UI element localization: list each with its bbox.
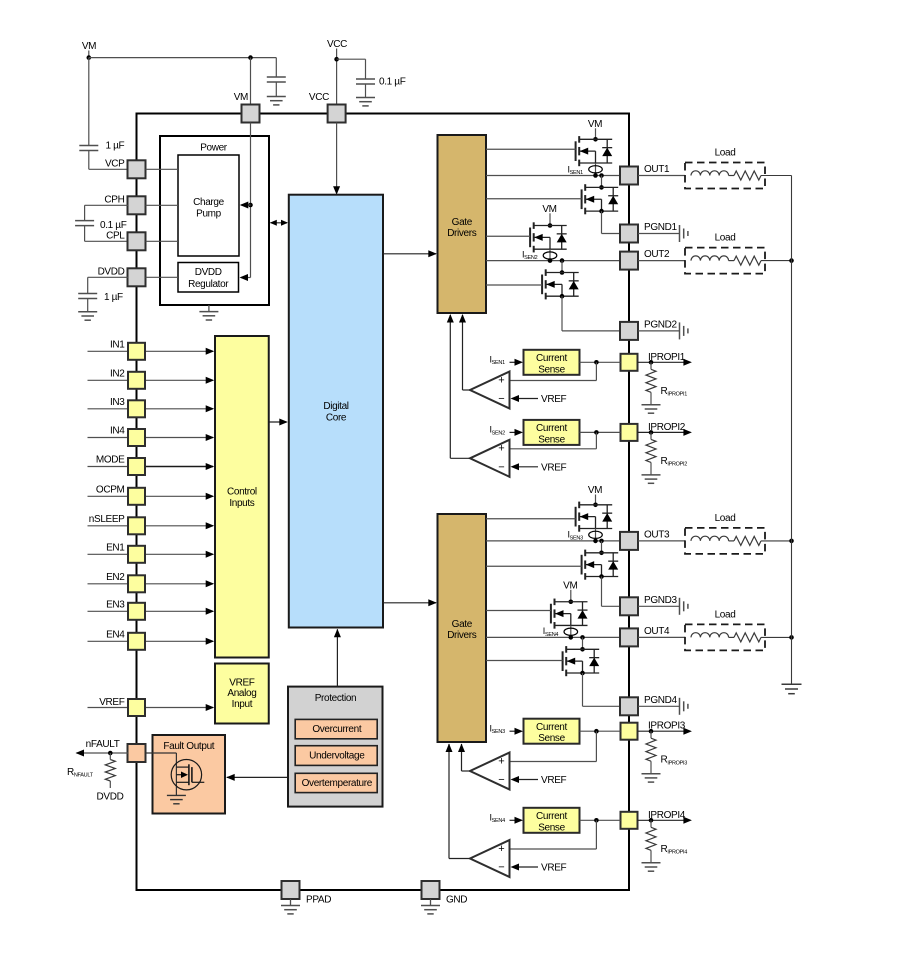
svg-text:EN1: EN1 [106,542,125,553]
svg-text:CPL: CPL [106,231,125,242]
node dot high-side drain OUT3 [593,503,598,508]
svg-text:GND: GND [446,895,467,906]
wire op-amp 2 output to gate drivers [450,457,470,459]
svg-text:VREF: VREF [541,462,567,473]
wire Current Sense 4 output to IPROPI4 pin [580,819,621,821]
pin OUT1 [620,167,638,185]
wire VM left branch down to 1uF cap [88,58,90,146]
block VREF Analog Input [215,664,269,724]
node dot R_IPROPI4 [649,818,654,823]
wire VCC branch to 0.1uF cap [337,58,366,60]
node dot current sense output 3 [594,729,599,734]
pin EN3 with stub and arrow to Control Inputs [88,610,129,612]
pin EN2 with stub and arrow to Control Inputs [88,583,129,585]
ground at R_IPROPI2 [642,474,661,476]
wire OUT2 pin to load [638,260,685,262]
block Current Sense 1 [524,350,580,375]
wire high-side source to sense element OUT1 [595,163,597,176]
pin GND [422,881,440,899]
wire op-amp 3 output to gate drivers [462,770,471,772]
node dot current sense output 2 [594,430,599,435]
block Current Sense 3 [524,719,580,744]
wire gate-driver to high-side gate OUT4 [486,610,551,612]
node VCC junction dot [334,57,339,62]
svg-text:Load: Load [715,609,736,620]
svg-text:VCC: VCC [327,39,347,50]
wire VM to high-side FET drain OUT4 [570,590,572,602]
svg-text:VM: VM [542,204,556,215]
svg-text:PGND3: PGND3 [644,595,677,606]
svg-text:VM: VM [82,41,96,52]
ground for DVDD capacitor [78,311,97,313]
pin nFAULT [128,744,146,762]
svg-text:IPROPI4: IPROPI4 [648,810,686,821]
pin OUT4 [620,628,638,646]
wire CPH to Charge Pump [146,204,179,206]
node dot load OUT4 on return bus [789,635,794,640]
svg-text:DVDD: DVDD [195,267,222,278]
svg-text:VCC: VCC [309,92,329,103]
wire low-side drain OUT3 [601,541,603,553]
pin OUT3 [620,532,638,550]
pin IN1 with stub and arrow to Control Inputs [88,350,129,352]
wire OUT4 pin to load [638,636,685,638]
wire VM to high-side FET drain OUT3 [595,495,597,505]
ground at R_IPROPI3 [642,773,661,775]
resistor R_IPROPI2 [650,432,652,439]
svg-text:Protection: Protection [315,693,357,704]
svg-text:Regulator: Regulator [188,279,229,290]
wire op-amp 1 feedback vertical to upper Gate Drivers [462,315,464,390]
transistor high-side NMOS OUT1 [575,141,577,161]
svg-text:−: − [498,862,504,874]
capacitor VM bypass [267,76,286,78]
svg-text:IPROPI3: IPROPI3 [648,721,686,732]
node dot high-side drain OUT2 [548,223,553,228]
svg-text:IN3: IN3 [110,397,125,408]
svg-text:nSLEEP: nSLEEP [89,514,125,525]
resistor R_IPROPI3 [650,731,652,738]
arrow Protection to Digital Core [336,629,338,686]
wire op-amp 2 feedback vertical to upper Gate Drivers [449,315,451,458]
wire VCP to Charge Pump [146,168,179,170]
svg-text:Control: Control [227,487,257,498]
svg-text:Inputs: Inputs [229,498,254,509]
pin IPROPI3 [621,723,638,740]
wire arrow VM into Charge Pump [241,204,251,206]
capacitor 0.1uF CPH-CPL flying [75,220,94,222]
wire PGND3 to external ground [638,605,680,607]
node dot VM to charge pump [248,203,253,208]
arrow ISEN1 into Current Sense box [510,361,517,363]
arrow Control Inputs to Digital Core [269,421,287,423]
svg-text:Overtemperature: Overtemperature [302,778,373,789]
svg-text:OUT2: OUT2 [644,249,670,260]
load OUT2 dashed box with inductor and resistor [685,248,765,274]
node dot load OUT2 on return bus [789,258,794,263]
wire Current Sense 2 output to IPROPI2 pin [580,431,621,433]
svg-text:Charge: Charge [193,197,224,208]
load OUT4 dashed box with inductor and resistor [685,624,765,650]
node dot current sense output 4 [594,818,599,823]
wire nFAULT pad into Fault Output [146,752,177,754]
pin PGND2 [620,322,638,340]
load OUT1 dashed box with inductor and resistor [685,163,765,189]
wire VM to high-side FET drain OUT1 [595,128,597,139]
wire CPL to Charge Pump [146,240,179,242]
svg-text:Gate: Gate [452,217,473,228]
wire VCC pad down to Digital Core with arrow [336,123,338,194]
pin PGND3 [620,597,638,615]
wire low-side drain OUT4 [582,637,584,649]
svg-text:EN2: EN2 [106,572,125,583]
wire low-side source to PGND2 [561,296,563,331]
block Protection [288,687,383,807]
ground at PGND3 [679,598,681,615]
node dot load OUT3 on return bus [789,539,794,544]
wire op-amp 4 output to gate drivers [449,858,470,860]
ground load return bus [782,684,802,693]
node dots on OUT2 line [548,258,553,263]
current sense element ISEN1 ellipse [589,166,603,173]
ground at PGND1 [679,225,681,242]
svg-text:0.1 µF: 0.1 µF [379,76,406,87]
wire DVDD to DVDD Regulator [146,276,179,278]
wire high-side source to sense element OUT4 [570,625,572,637]
wire gate-driver to low-side gate OUT4 [486,660,563,662]
wire VM to high-side FET drain OUT2 [549,213,551,225]
device outline box [137,114,630,891]
transistor high-side NMOS OUT2 [529,228,531,248]
svg-text:DVDD: DVDD [97,792,124,803]
svg-text:−: − [498,774,504,786]
pin IPROPI2 [621,424,638,441]
wire gate-driver to low-side gate OUT2 [486,284,542,286]
ground for VM bypass capacitor [267,96,286,98]
pin CPL [128,232,146,250]
svg-text:IN4: IN4 [110,426,125,437]
resistor R_IPROPI1 [650,362,652,369]
transistor fault-output MOSFET in circle [171,760,201,790]
pin IPROPI1 [621,354,638,371]
svg-text:OUT4: OUT4 [644,626,670,637]
wire low-side source to PGND3 [601,577,603,607]
capacitor 0.1uF at VCC [356,78,375,80]
wire VCC vertical [336,49,338,106]
wire phase line OUT3 from gate driver to pin [486,540,621,542]
svg-text:OCPM: OCPM [96,484,125,495]
wire to op-amp plus input 3 [595,731,597,761]
svg-text:VCP: VCP [105,159,125,170]
pin CPH [128,196,146,214]
svg-text:Power: Power [200,142,228,153]
wire flying cap to CPL [84,226,86,242]
node dot low-side source OUT2 [560,294,565,299]
svg-text:VM: VM [563,580,577,591]
wire IPROPI4 output with arrow [638,819,691,821]
svg-text:Drivers: Drivers [447,228,477,239]
wire Current Sense 1 output to IPROPI1 pin [580,361,621,363]
bidirectional arrow Power to Digital Core [271,222,288,224]
pin VM (top pad) [242,105,260,123]
block Current Sense 2 [524,420,580,445]
ground at PGND4 [679,698,681,715]
current sense element ISEN4 ellipse [564,628,578,635]
ground at GND pin [430,899,432,906]
svg-text:nFAULT: nFAULT [86,739,120,750]
arrow ISEN2 into Current Sense box [510,431,517,433]
node dot low-side source OUT3 [599,574,604,579]
wire VM horizontal rail [89,57,276,59]
wire op-amp 1 output to gate drivers [463,389,471,391]
svg-text:−: − [498,393,504,405]
wire VM down to VM pin [250,58,252,105]
svg-text:VREF: VREF [99,697,125,708]
ground under Power block [208,305,210,312]
svg-text:DVDD: DVDD [98,267,125,278]
block Digital Core [289,195,383,628]
pin PGND1 [620,225,638,243]
svg-text:Undervoltage: Undervoltage [309,751,365,762]
pin DVDD [128,268,146,286]
pin OUT2 [620,252,638,270]
wire CPH left stub [85,204,128,206]
ground at PPAD [290,899,292,906]
svg-text:Fault Output: Fault Output [163,741,214,752]
pin MODE with stub and arrow to Control Inputs [88,466,129,468]
svg-text:+: + [498,443,504,455]
node dot high-side drain OUT4 [569,599,574,604]
pin VCP [128,160,146,178]
block Overtemperature [295,773,377,792]
load OUT3 dashed box with inductor and resistor [685,528,765,554]
svg-text:Drivers: Drivers [447,630,477,641]
svg-text:MODE: MODE [96,455,125,466]
svg-text:Core: Core [326,413,347,424]
pin nSLEEP with stub and arrow to Control Inputs [88,525,129,527]
svg-text:0.1 µF: 0.1 µF [100,220,127,231]
node dot R_IPROPI2 [649,430,654,435]
svg-text:Sense: Sense [538,822,565,833]
node dot low-side source OUT1 [599,209,604,214]
svg-text:IPROPI2: IPROPI2 [648,422,686,433]
svg-text:1 µF: 1 µF [106,141,125,152]
wire phase line OUT2 from gate driver to pin [486,260,621,262]
block Gate Drivers (upper) [438,135,487,313]
svg-text:Current: Current [536,353,567,364]
op-amp comparator U4 [470,840,510,877]
svg-text:Sense: Sense [538,733,565,744]
node dots on OUT1 line [593,173,598,178]
svg-text:VM: VM [588,119,602,130]
wire to op-amp plus input 4 [595,820,597,849]
svg-text:CPH: CPH [104,195,124,206]
wire IPROPI1 output with arrow [638,361,691,363]
svg-text:Load: Load [715,513,736,524]
svg-text:PPAD: PPAD [306,895,331,906]
arrow ISEN4 into Current Sense box [510,819,517,821]
block Current Sense 4 [524,808,580,833]
svg-text:Sense: Sense [538,364,565,375]
svg-text:Overcurrent: Overcurrent [312,724,362,735]
wire Protection to Fault Output with arrow [227,776,288,778]
current sense element ISEN2 ellipse [543,252,557,259]
transistor low-side NMOS OUT2 [541,275,543,295]
pin IN3 with stub and arrow to Control Inputs [88,408,129,410]
svg-text:Gate: Gate [452,619,473,630]
wire nFAULT output with arrow [77,752,129,754]
wire VM pad down inside device [250,123,252,278]
wire to op-amp plus input 1 [595,362,597,380]
pin PPAD [282,881,300,899]
pin VREF with stub and arrow to VREF Analog Input [88,707,129,709]
ground at PGND2 [679,322,681,339]
wire Current Sense 3 output to IPROPI3 pin [580,730,621,732]
svg-text:Input: Input [232,699,253,710]
wire VM branch to bypass capacitor [275,58,277,77]
svg-text:VM: VM [588,485,602,496]
block Charge Pump [178,155,239,256]
svg-text:Digital: Digital [323,401,348,412]
ground at R_IPROPI4 [642,862,661,864]
wire OUT1 pin to load [638,175,685,177]
wire gate-driver to high-side gate OUT2 [486,235,530,237]
transistor high-side NMOS OUT4 [550,604,552,624]
wire op-amp 4 feedback vertical to lower Gate Drivers [448,744,450,859]
svg-text:VREF: VREF [229,677,255,688]
wire phase line OUT1 from gate driver to pin [486,175,621,177]
svg-text:OUT1: OUT1 [644,164,670,175]
svg-text:Analog: Analog [227,688,256,699]
wire VREF into op-amp minus input 1 [517,398,538,400]
svg-text:OUT3: OUT3 [644,529,670,540]
wire gate-driver to low-side gate OUT3 [486,565,582,567]
wire high-side source to sense element OUT2 [549,249,551,260]
arrow ISEN3 into Current Sense box [510,730,517,732]
wire gate-driver to high-side gate OUT3 [486,518,576,520]
svg-text:Current: Current [536,423,567,434]
wire IPROPI2 output with arrow [638,431,691,433]
block Gate Drivers (lower) [438,514,487,742]
wire VREF into op-amp minus input 3 [517,779,538,781]
svg-text:PGND2: PGND2 [644,319,677,330]
wire low-side drain OUT2 [561,261,563,273]
node dot high-side drain OUT1 [593,137,598,142]
svg-text:IN1: IN1 [110,339,125,350]
wire arrow VM into DVDD Regulator [241,277,251,279]
svg-text:Load: Load [715,148,736,159]
svg-text:PGND4: PGND4 [644,695,677,706]
arrow Digital Core to lower Gate Drivers [383,602,436,604]
node dot R_IPROPI1 [649,360,654,365]
pin VCC (top pad) [328,105,346,123]
wire gate-driver to high-side gate OUT1 [486,148,576,150]
svg-text:+: + [498,374,504,386]
wire phase line OUT4 from gate driver to pin [486,636,621,638]
node dot current sense output 1 [594,360,599,365]
pin IN2 with stub and arrow to Control Inputs [88,379,129,381]
pin OCPM with stub and arrow to Control Inputs [88,495,129,497]
svg-text:VM: VM [234,92,248,103]
arrow Digital Core to upper Gate Drivers [383,253,436,255]
wire low-side source to PGND1 [601,211,603,233]
resistor R_nFAULT pullup [109,753,111,760]
pin PGND4 [620,697,638,715]
capacitor 1uF at DVDD [78,293,97,295]
wire PGND4 to external ground [638,705,680,707]
node dots on OUT4 line [569,635,574,640]
svg-text:Load: Load [715,233,736,244]
block DVDD Regulator [178,263,239,293]
block Power [160,136,269,305]
svg-text:VREF: VREF [541,775,567,786]
svg-text:Pump: Pump [196,209,222,220]
svg-text:1 µF: 1 µF [104,292,123,303]
svg-text:VREF: VREF [541,863,567,874]
node VM branch dot above VM pin [248,55,253,60]
resistor R_IPROPI4 [650,820,652,827]
wire gate-driver to low-side gate OUT1 [486,198,582,200]
node dots on OUT3 line [593,539,598,544]
svg-text:PGND1: PGND1 [644,222,677,233]
ground for VCC bypass capacitor [356,97,375,99]
svg-text:Current: Current [536,722,567,733]
pin IN4 with stub and arrow to Control Inputs [88,437,129,439]
wire to op-amp plus input 2 [595,432,597,448]
pin EN1 with stub and arrow to Control Inputs [88,553,129,555]
wire low-side drain OUT1 [601,176,603,188]
svg-text:IN2: IN2 [110,368,125,379]
transistor low-side NMOS OUT1 [581,189,583,209]
svg-text:+: + [498,755,504,767]
wire OUT3 pin to load [638,540,685,542]
wire VM vertical to node [88,51,90,58]
svg-text:+: + [498,843,504,855]
transistor low-side NMOS OUT3 [581,555,583,575]
svg-text:Current: Current [536,811,567,822]
op-amp comparator U1 [470,372,510,409]
wire 1uF cap to VCP pin [88,151,90,170]
wire op-amp 3 feedback vertical to lower Gate Drivers [461,744,463,771]
svg-text:EN3: EN3 [106,599,125,610]
node dot low-side source OUT4 [580,671,585,676]
svg-text:IPROPI1: IPROPI1 [648,352,686,363]
block Control Inputs [215,336,269,658]
block Fault Output [153,735,226,814]
node VM junction dot [87,55,92,60]
node dot nFAULT pullup [108,751,113,756]
wire low-side source to PGND4 [582,673,584,706]
wire PGND1 to external ground [638,233,680,235]
node dot R_IPROPI3 [649,729,654,734]
op-amp comparator U2 [470,440,510,477]
op-amp comparator U3 [470,753,510,790]
wire load return bus (right) [791,176,793,685]
wire DVDD left stub to cap [88,276,128,278]
capacitor 1uF at VCP [79,145,98,147]
wire VREF into op-amp minus input 4 [517,866,538,868]
svg-text:VREF: VREF [541,394,567,405]
wire high-side source to sense element OUT3 [595,529,597,541]
pin IPROPI4 [621,812,638,829]
wire VREF into op-amp minus input 2 [517,466,538,468]
wire PGND2 to external ground [638,330,680,332]
transistor high-side NMOS OUT3 [575,507,577,527]
current sense element ISEN3 ellipse [589,531,603,538]
transistor low-side NMOS OUT4 [562,651,564,671]
wire IPROPI3 output with arrow [638,730,691,732]
svg-text:Sense: Sense [538,434,565,445]
